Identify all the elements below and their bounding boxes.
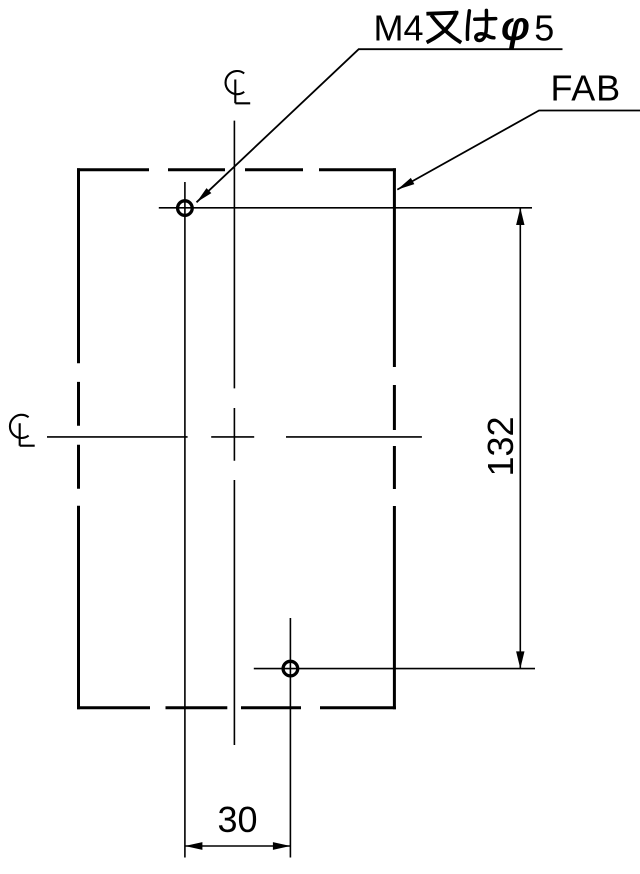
- hole H2 horizontal extension line y=668.6: [254, 668, 535, 670]
- svg-text:30: 30: [217, 799, 257, 840]
- hiragana ha (stroke-drawn): [467, 10, 495, 40]
- svg-text:φ: φ: [501, 3, 530, 49]
- leader FAB line: [397, 111, 640, 190]
- svg-text:132: 132: [480, 416, 521, 476]
- centre-line symbol (top): [226, 71, 251, 103]
- horizontal centerline y=436.9: [47, 436, 422, 438]
- dimension 30 arrowhead left: [185, 842, 203, 850]
- leader FAB arrowhead: [397, 178, 414, 190]
- dimension 30 arrowhead right: [273, 842, 291, 850]
- svg-text:M4: M4: [374, 8, 424, 49]
- dimension 132 arrowhead down: [516, 651, 524, 668]
- hole H2 vertical extension line x=290.4: [289, 618, 291, 858]
- dimension 132 line: [519, 208, 521, 669]
- vertical centerline x=234.4: [233, 121, 235, 745]
- mounting hole H2: [283, 661, 298, 676]
- FAB outline top edge (dashed): [77, 168, 396, 171]
- dimension 30 line: [185, 845, 291, 847]
- dimension 132 arrowhead up: [516, 208, 524, 225]
- leader M4/phi5 line: [197, 49, 563, 202]
- hole H1 horizontal extension line y=207.8: [159, 207, 532, 209]
- hole H1 vertical extension line x=184.9: [184, 182, 186, 858]
- kanji mata (stroke-drawn): [428, 13, 459, 42]
- FAB outline right edge (dashed): [393, 168, 396, 709]
- leader M4/phi5 arrowhead: [197, 188, 212, 202]
- svg-text:5: 5: [534, 8, 554, 49]
- centre-line symbol (left): [10, 415, 35, 446]
- FAB outline bottom edge (dashed): [77, 706, 396, 709]
- mounting hole H1: [178, 201, 193, 216]
- FAB outline left edge (dashed): [77, 168, 80, 709]
- svg-text:FAB: FAB: [551, 67, 621, 108]
